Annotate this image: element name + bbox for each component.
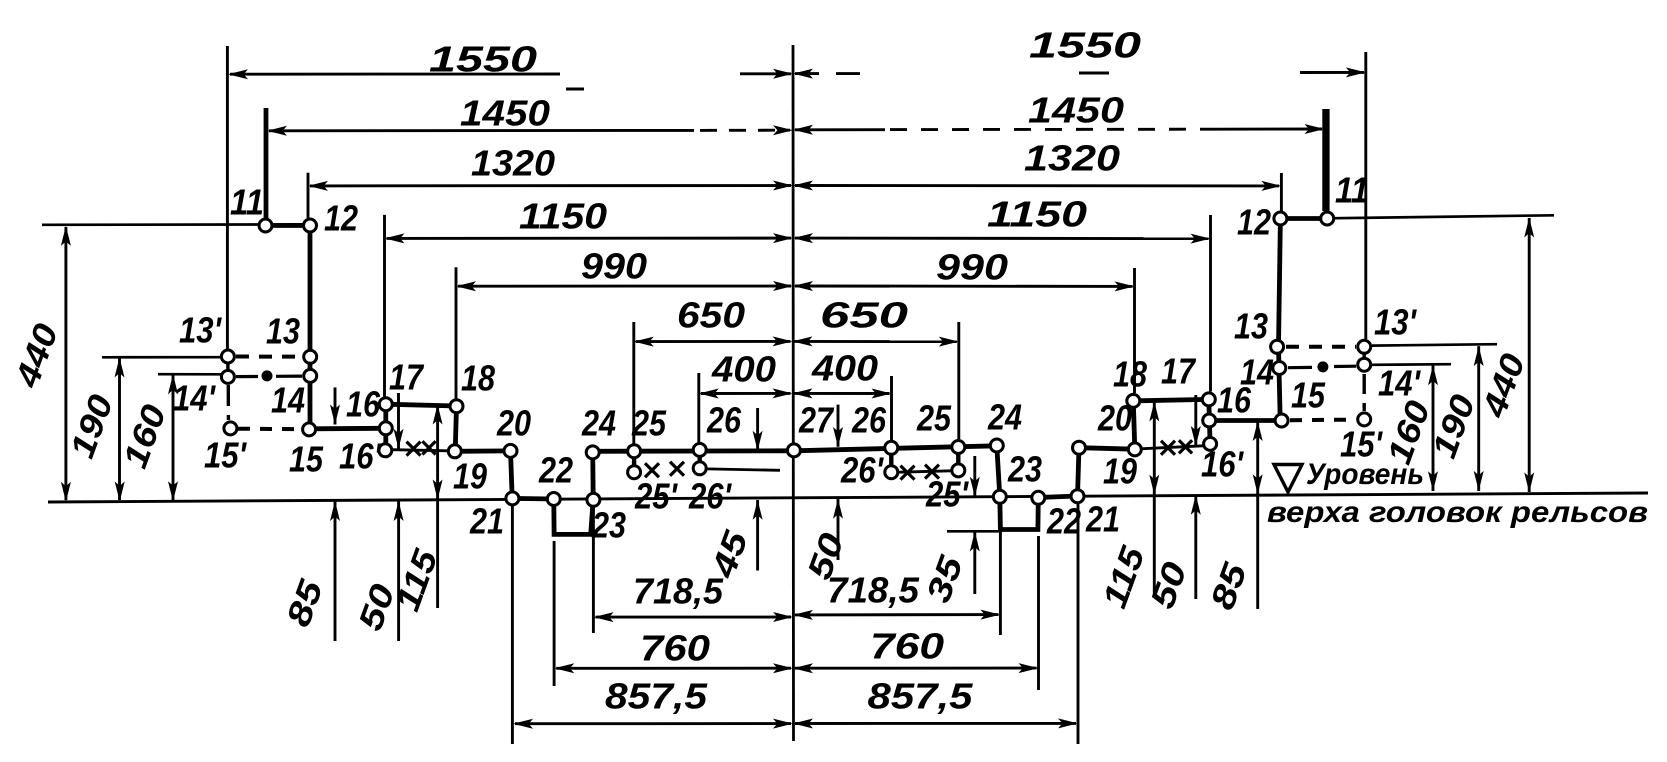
svg-text:13: 13 — [1234, 306, 1268, 347]
svg-text:17: 17 — [1161, 351, 1197, 392]
dimension 440 right — [1528, 218, 1531, 492]
svg-text:1320: 1320 — [471, 143, 555, 184]
node 25 right — [952, 441, 965, 454]
wire 27-26-25-24 right — [794, 446, 997, 451]
svg-text:22: 22 — [1046, 501, 1081, 542]
wire 18-17 right — [1133, 399, 1209, 401]
dimension 990 left — [458, 285, 791, 288]
node 14' left — [221, 370, 234, 383]
node 13' right — [1358, 340, 1371, 353]
node 21 right — [1071, 490, 1084, 503]
dimension 115 right — [1153, 402, 1156, 598]
x mark 1 left lower — [407, 442, 421, 456]
reference line 190 right at 13' — [1372, 344, 1497, 345]
svg-text:25: 25 — [631, 403, 667, 444]
svg-text:15: 15 — [1291, 375, 1326, 416]
wire dot-14' right — [1334, 365, 1356, 368]
svg-text:22: 22 — [538, 450, 573, 491]
node 18 right — [1127, 394, 1140, 407]
node 20 right — [1073, 441, 1086, 454]
dimension 160 right — [1432, 365, 1435, 491]
extension line 23 right down — [999, 503, 1002, 635]
svg-text:26: 26 — [706, 400, 742, 441]
dimension 115 left — [436, 404, 439, 608]
dimension 760 left — [556, 667, 791, 670]
extension stub 1450 right — [1322, 109, 1326, 211]
svg-text:857,5: 857,5 — [868, 676, 974, 717]
svg-text:26: 26 — [851, 400, 887, 441]
wire 15-14-13-12 right — [1279, 219, 1281, 421]
svg-text:верха головок рельсов: верха головок рельсов — [1267, 496, 1648, 529]
dimension 1320 right — [795, 184, 1279, 187]
wire 15-16 left — [309, 426, 386, 431]
svg-text:400: 400 — [711, 349, 776, 390]
reference line 190 left at 13' — [102, 356, 221, 359]
wire 26' level line left — [707, 469, 780, 470]
node 16/17 corner left — [379, 398, 392, 411]
x mark right lower b — [1179, 440, 1192, 453]
svg-text:19: 19 — [1103, 451, 1137, 492]
extension line 990 right — [1133, 268, 1136, 393]
svg-text:17: 17 — [389, 357, 425, 398]
svg-text:18: 18 — [1113, 354, 1147, 395]
node 12 left — [304, 219, 317, 232]
upper reference line right — [1327, 215, 1554, 218]
svg-text:650: 650 — [677, 295, 745, 336]
wire 16-15 right — [1209, 418, 1281, 423]
wire 20-19 right — [1079, 448, 1135, 450]
dimension 50 left — [397, 393, 400, 449]
svg-text:1320: 1320 — [1024, 138, 1120, 179]
reference line 160 left at 14' — [158, 373, 221, 376]
wire 25-25' stub left — [632, 451, 636, 472]
node 16 junction left — [379, 422, 392, 435]
svg-text:760: 760 — [870, 626, 944, 667]
dimension 857,5 left — [515, 722, 791, 725]
svg-text:20: 20 — [496, 403, 531, 444]
node 13' left — [221, 350, 234, 363]
x mark right lower a — [1161, 441, 1175, 455]
node 26' left — [693, 462, 706, 475]
node 16' left — [379, 444, 392, 457]
wire 21-20 right — [1078, 448, 1080, 496]
dimension 45 center-left — [756, 408, 759, 451]
extension line 1320 left — [307, 173, 310, 218]
wire 14-dot right — [1288, 366, 1312, 370]
wire 26-26' stub left — [698, 450, 702, 468]
svg-text:990: 990 — [936, 247, 1008, 288]
svg-text:718,5: 718,5 — [827, 570, 920, 611]
extension line 650 right — [957, 322, 960, 439]
svg-text:15': 15' — [1340, 424, 1383, 465]
wire 25-25' stub right — [956, 447, 960, 470]
svg-text:21: 21 — [469, 501, 504, 542]
x mark 26'-25' right a — [901, 466, 915, 480]
extension line 1550 right — [1364, 52, 1367, 339]
node 11 right — [1321, 212, 1334, 225]
node 26 left — [693, 443, 706, 456]
dimension 190 left — [118, 359, 121, 501]
extension line 21 left down — [511, 506, 514, 744]
node 12 right — [1274, 212, 1287, 225]
svg-text:1550: 1550 — [429, 39, 537, 80]
svg-text:16: 16 — [346, 384, 381, 425]
wire 26-26' stub right — [889, 448, 893, 472]
svg-text:23: 23 — [591, 505, 626, 546]
svg-text:27: 27 — [798, 400, 835, 441]
dimension 718,5 right — [795, 613, 998, 616]
wire 24-25-26-27 left — [593, 448, 794, 453]
node 15' right — [1358, 413, 1371, 426]
svg-text:15': 15' — [204, 435, 247, 476]
wire notch 23-22 right — [1000, 497, 1039, 530]
svg-text:11: 11 — [230, 182, 264, 223]
wire 11-12 left — [258, 223, 310, 228]
node 27 center — [787, 444, 800, 457]
extension line 400 left — [697, 373, 700, 442]
wire 26'-25' line right — [899, 471, 951, 472]
node 24 right — [990, 439, 1003, 452]
node 22 right — [1032, 491, 1045, 504]
node 13 right — [1271, 340, 1284, 353]
svg-text:760: 760 — [640, 628, 710, 669]
wire 20-21 left — [511, 451, 513, 499]
extension line 21 right down — [1077, 503, 1080, 744]
node 11 left — [259, 219, 272, 232]
dashed wire 15'-15 left — [238, 427, 301, 432]
node 15 right — [1275, 414, 1288, 427]
rail level line (top of rail heads) — [48, 493, 1648, 502]
svg-text:1450: 1450 — [1028, 90, 1124, 131]
svg-text:25: 25 — [916, 398, 952, 439]
node 21 left — [506, 492, 519, 505]
node 18 left — [450, 400, 463, 413]
dimension 760 right — [795, 667, 1037, 670]
svg-text:25': 25' — [634, 476, 678, 517]
dimension 50 right — [1194, 395, 1197, 446]
wire 14'-dot left — [236, 375, 258, 378]
dashed wire 14'-15' left — [227, 385, 230, 420]
svg-text:1550: 1550 — [1029, 25, 1141, 66]
svg-text:14: 14 — [1240, 352, 1274, 393]
node 23 right — [993, 490, 1006, 503]
x mark 26'-25' right b — [925, 465, 939, 479]
dimension 400 left — [701, 392, 791, 395]
dimension 1550 left — [230, 73, 560, 76]
dimension 650 left — [636, 340, 791, 343]
dimension 718,5 left — [596, 616, 791, 619]
dimension 1550 right — [795, 72, 877, 75]
dimension 85 right — [1256, 421, 1259, 609]
svg-text:26': 26' — [688, 476, 732, 517]
dashed wire 13'-13 left — [236, 355, 302, 359]
dimension 160 left — [172, 375, 175, 500]
node 26' right — [885, 466, 898, 479]
dot on 14-14' right — [1317, 361, 1328, 372]
x mark 2 left lower — [422, 441, 435, 454]
dashed wire 14'-15' right — [1362, 374, 1365, 411]
wire dot-14 left — [276, 375, 302, 378]
wire 24-23 right — [997, 446, 1000, 497]
svg-text:12: 12 — [1237, 202, 1271, 243]
level mark triangle — [1274, 465, 1302, 493]
svg-text:14': 14' — [173, 378, 216, 419]
svg-text:857,5: 857,5 — [605, 676, 708, 717]
wire riser 16'-16-17 left — [383, 404, 388, 450]
upper reference line left (440 top) — [42, 223, 309, 226]
stray dash under 1550 left — [566, 88, 584, 91]
extension line 1150 right — [1209, 215, 1212, 392]
node 14' right — [1358, 358, 1371, 371]
wire stub above node 11 right — [1325, 109, 1330, 216]
node 22 left — [547, 493, 560, 506]
svg-text:718,5: 718,5 — [633, 571, 724, 612]
svg-text:20: 20 — [1097, 398, 1132, 439]
dimension 1450 left — [269, 129, 694, 132]
vertical center line — [792, 45, 795, 741]
node 14 left — [304, 369, 317, 382]
extension line 22 right down — [1037, 536, 1040, 690]
node 24 left — [586, 446, 599, 459]
node 25' right — [952, 464, 965, 477]
dimension 1320 left — [310, 184, 791, 187]
svg-text:13': 13' — [179, 310, 222, 351]
dimension 990 right — [795, 285, 1133, 288]
svg-text:15: 15 — [289, 439, 324, 480]
svg-text:400: 400 — [811, 348, 878, 389]
dimension 1150 right — [795, 237, 1209, 240]
wire 17-18 left — [386, 404, 457, 406]
extension line 22 left down — [553, 541, 556, 686]
svg-text:13: 13 — [266, 311, 300, 352]
reference line 160 right at 14' — [1372, 363, 1451, 366]
wire 19-18 right — [1133, 401, 1135, 449]
svg-text:14: 14 — [271, 380, 305, 421]
svg-text:650: 650 — [820, 295, 908, 336]
node 15 left — [303, 423, 316, 436]
node 25' left — [628, 466, 641, 479]
svg-text:1150: 1150 — [987, 194, 1087, 235]
notch bottom extension right (35 ref) — [947, 530, 1002, 533]
dimension 857,5 right — [795, 722, 1076, 725]
wire 13'-14' connector right — [1362, 347, 1365, 365]
node 17 right — [1202, 393, 1215, 406]
node 19 right — [1128, 443, 1141, 456]
node 23 left — [587, 493, 600, 506]
svg-text:990: 990 — [581, 246, 647, 287]
dimension 35 right — [973, 456, 976, 497]
svg-text:26': 26' — [840, 450, 884, 491]
x-line 16'-19 left — [393, 450, 448, 451]
dimension 190 right — [1477, 346, 1480, 491]
extension line 1150 left — [383, 215, 386, 397]
dimension 650 right — [795, 340, 957, 343]
dimension 85 left — [334, 387, 337, 424]
wire 12-11 right — [1280, 216, 1327, 221]
svg-text:24: 24 — [581, 403, 616, 444]
node 14 right — [1273, 362, 1286, 375]
svg-text:25': 25' — [925, 474, 969, 515]
wire 18-19 left — [455, 406, 456, 451]
wire notch 22-23 left — [554, 499, 593, 534]
extension line 1550 left — [226, 46, 229, 349]
svg-text:1150: 1150 — [519, 196, 607, 237]
node 19 left — [448, 445, 461, 458]
extension line 1320 right — [1280, 173, 1283, 211]
svg-text:1450: 1450 — [460, 93, 550, 134]
dimension 50 center-right — [837, 405, 840, 447]
extension line 990 left — [455, 267, 458, 398]
wire 19-20 left — [455, 448, 511, 453]
node 16' right — [1204, 437, 1217, 450]
dimension 1150 left — [387, 237, 792, 240]
wire 21-22 left — [512, 496, 554, 501]
node 25 left — [628, 445, 641, 458]
extension line 400 right — [890, 376, 893, 440]
svg-text:24: 24 — [987, 397, 1022, 438]
svg-text:19: 19 — [453, 456, 487, 497]
x-line 19-16' right — [1141, 446, 1203, 449]
dashed wire 13-13' right — [1286, 345, 1356, 349]
node 15' left — [224, 422, 237, 435]
wire 12-13-14-15 left — [308, 226, 313, 430]
dimension 1450 right — [795, 128, 885, 131]
dot on 14-14' left — [262, 370, 273, 381]
wire riser 17-16-16' right — [1209, 399, 1210, 444]
node 16 junction right — [1203, 414, 1216, 427]
wire 23-24 left — [590, 451, 595, 499]
x mark 25'-26' left a — [645, 463, 659, 477]
node 20 left — [504, 444, 517, 457]
svg-text:11: 11 — [1335, 170, 1369, 211]
svg-text:16': 16' — [339, 436, 382, 477]
wire 13'-14' connector left — [226, 357, 229, 377]
svg-text:12: 12 — [324, 198, 358, 239]
svg-text:16': 16' — [1201, 444, 1244, 485]
svg-text:13': 13' — [1374, 302, 1417, 343]
node 13 left — [304, 350, 317, 363]
wire 22-21 right — [1038, 496, 1077, 498]
node 26 right — [885, 441, 898, 454]
svg-text:14': 14' — [1378, 363, 1421, 404]
x mark 25'-26' left b — [670, 462, 684, 476]
svg-text:18: 18 — [461, 358, 495, 399]
wire stub above node 11 left — [264, 108, 269, 222]
dashed wire 15-15' right — [1290, 418, 1356, 423]
dimension 400 right — [795, 392, 890, 395]
svg-text:23: 23 — [1007, 449, 1042, 490]
svg-text:21: 21 — [1085, 499, 1120, 540]
extension line 23 left down — [592, 507, 595, 633]
extension line 650 left — [632, 322, 635, 444]
dimension 440 left — [64, 227, 67, 500]
